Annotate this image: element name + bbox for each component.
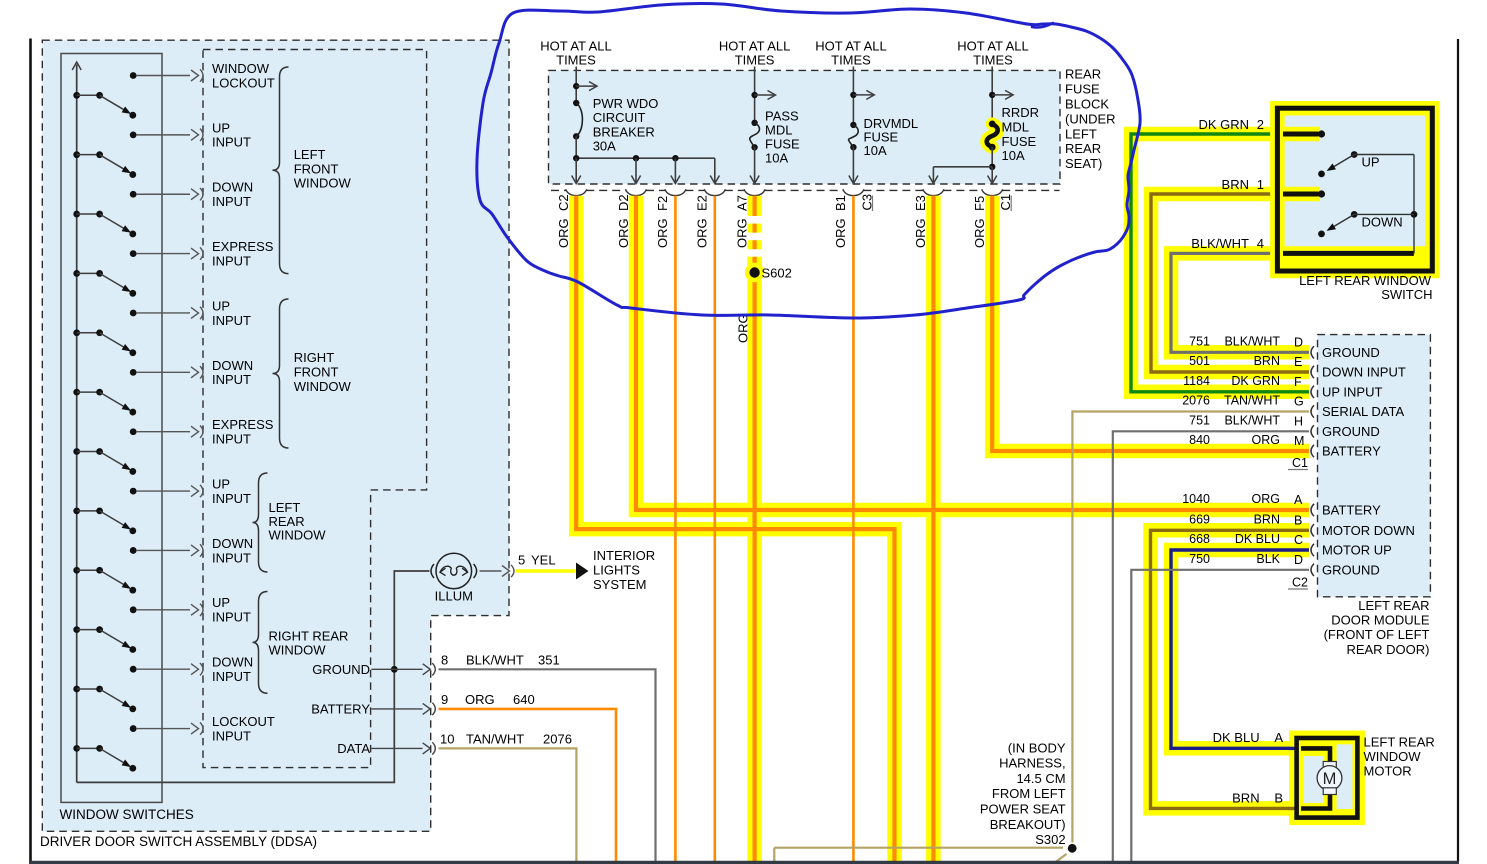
svg-text:FUSE: FUSE — [1002, 134, 1037, 149]
svg-text:EXPRESS: EXPRESS — [212, 417, 274, 432]
svg-text:BLK: BLK — [1256, 552, 1280, 566]
wire ORG F5 / 840 ORG M — [992, 196, 1309, 451]
motor internal wiring — [1301, 748, 1330, 762]
svg-text:351: 351 — [538, 653, 560, 668]
svg-text:(UNDER: (UNDER — [1065, 111, 1116, 126]
switch pin 2 stub — [1281, 127, 1319, 142]
svg-text:E: E — [1294, 355, 1302, 369]
svg-text:C: C — [1294, 533, 1303, 547]
svg-text:DK GRN: DK GRN — [1198, 117, 1249, 132]
switch UP contact — [1351, 151, 1358, 158]
svg-text:D: D — [1294, 553, 1303, 567]
switch bus wire — [76, 65, 78, 783]
svg-text:HOT AT ALL: HOT AT ALL — [815, 39, 887, 54]
module pin GROUND y=569.8 — [1311, 564, 1314, 576]
svg-text:INPUT: INPUT — [212, 253, 251, 268]
wire DK GRN 1184 — [1131, 134, 1309, 392]
module pin UP INPUT y=391.8 — [1311, 386, 1314, 398]
switch S10 — [73, 604, 203, 653]
svg-text:INPUT: INPUT — [212, 135, 251, 150]
svg-text:8: 8 — [441, 653, 448, 668]
svg-text:B1: B1 — [833, 195, 848, 211]
module pin DOWN INPUT y=372 — [1311, 366, 1314, 378]
svg-text:669: 669 — [1189, 513, 1210, 527]
svg-text:MOTOR: MOTOR — [1364, 764, 1412, 779]
svg-text:INPUT: INPUT — [212, 194, 251, 209]
svg-text:668: 668 — [1189, 532, 1210, 546]
breaker output bus — [576, 157, 715, 159]
svg-text:ORG: ORG — [556, 218, 571, 248]
yellow highlight motor wires BRN / DK BLU — [1151, 530, 1310, 808]
svg-text:HOT AT ALL: HOT AT ALL — [719, 39, 791, 54]
svg-text:1184: 1184 — [1183, 374, 1210, 388]
wire 9 ORG 640 — [439, 709, 617, 861]
svg-text:SERIAL DATA: SERIAL DATA — [1322, 404, 1404, 419]
svg-text:GROUND: GROUND — [312, 662, 370, 677]
svg-text:INPUT: INPUT — [212, 669, 251, 684]
svg-text:WINDOW SWITCHES: WINDOW SWITCHES — [60, 807, 194, 822]
bus arrow up — [72, 62, 81, 70]
pin bump x=675.4 — [665, 189, 686, 195]
svg-text:A7: A7 — [734, 195, 749, 211]
page border bottom — [29, 861, 1459, 864]
svg-text:HARNESS,: HARNESS, — [999, 756, 1065, 771]
svg-text:(IN BODY: (IN BODY — [1008, 740, 1066, 755]
svg-text:MDL: MDL — [1002, 120, 1029, 135]
svg-text:ORG: ORG — [655, 218, 670, 248]
svg-text:F5: F5 — [972, 196, 987, 211]
wire BLK/WHT 751 switch — [1171, 253, 1309, 352]
wire BRN 501 — [1151, 194, 1309, 372]
svg-text:FRONT: FRONT — [294, 365, 339, 380]
svg-text:DOWN: DOWN — [212, 358, 253, 373]
wire BRN 669 motor down — [1151, 530, 1310, 808]
svg-text:DOWN: DOWN — [212, 655, 253, 670]
wire ORG C2 — [576, 196, 894, 862]
svg-text:DOWN: DOWN — [212, 536, 253, 551]
svg-text:BATTERY: BATTERY — [1322, 444, 1381, 459]
svg-text:750: 750 — [1189, 552, 1210, 566]
svg-text:TIMES: TIMES — [831, 53, 871, 68]
switch S4 — [73, 247, 203, 296]
left rear window motor box — [1297, 738, 1358, 818]
svg-text:14.5 CM: 14.5 CM — [1016, 771, 1065, 786]
pin bump x=714.8 — [704, 189, 725, 195]
pin bump x=754.6 — [744, 189, 765, 195]
svg-text:2076: 2076 — [1182, 394, 1210, 408]
svg-text:A: A — [1294, 493, 1303, 507]
switch S12 — [73, 722, 203, 771]
svg-text:WINDOW: WINDOW — [269, 642, 327, 657]
svg-text:FRONT: FRONT — [294, 161, 339, 176]
wire DK BLU 668 motor up — [1171, 550, 1309, 748]
svg-text:640: 640 — [513, 692, 535, 707]
svg-text:S602: S602 — [762, 266, 792, 281]
svg-text:UP: UP — [212, 120, 230, 135]
svg-text:M: M — [1323, 770, 1337, 788]
yellow highlight F5 wire to pin M — [992, 196, 1309, 451]
svg-text:B: B — [1294, 513, 1302, 527]
svg-text:MOTOR DOWN: MOTOR DOWN — [1322, 523, 1415, 538]
circuit breaker PWR WDO 30A — [573, 67, 597, 159]
svg-text:GROUND: GROUND — [1322, 562, 1380, 577]
svg-text:LOCKOUT: LOCKOUT — [212, 714, 275, 729]
svg-text:M: M — [1294, 434, 1304, 448]
svg-text:PWR WDO: PWR WDO — [593, 96, 659, 111]
blue highlighter loop — [477, 4, 1140, 318]
illumination lamp ILLUM — [431, 553, 477, 589]
svg-text:BLK/WHT: BLK/WHT — [1191, 236, 1249, 251]
module pin SERIAL DATA y=411.5 — [1311, 405, 1314, 417]
wire TAN/WHT 2076 serial data — [1072, 412, 1309, 843]
wire illum to edge — [480, 570, 502, 572]
svg-text:BLOCK: BLOCK — [1065, 97, 1109, 112]
wire ORG B1 — [852, 196, 855, 862]
fuse PASS MDL 10A — [750, 67, 776, 184]
switch pin 1 stub — [1281, 187, 1319, 202]
switch S2 — [73, 129, 203, 178]
svg-text:INPUT: INPUT — [212, 728, 251, 743]
svg-text:EXPRESS: EXPRESS — [212, 239, 274, 254]
svg-text:S302: S302 — [1035, 832, 1065, 847]
inner input-labels dashed box — [203, 50, 427, 768]
svg-text:ORG: ORG — [734, 218, 749, 248]
svg-text:SWITCH: SWITCH — [1381, 287, 1432, 302]
junction dot ground/illum — [391, 666, 398, 673]
svg-text:1040: 1040 — [1182, 492, 1210, 506]
svg-text:DK GRN: DK GRN — [1231, 374, 1280, 388]
svg-text:YEL: YEL — [531, 553, 556, 568]
svg-text:DOWN: DOWN — [212, 180, 253, 195]
svg-text:5: 5 — [518, 553, 525, 568]
svg-text:751: 751 — [1189, 414, 1210, 428]
svg-text:UP: UP — [212, 298, 230, 313]
svg-text:LIGHTS: LIGHTS — [593, 563, 640, 578]
svg-text:F: F — [1294, 375, 1302, 389]
svg-text:BRN: BRN — [1222, 177, 1249, 192]
wire BLK/WHT 751 ground H — [1113, 431, 1309, 861]
svg-text:ORG: ORG — [1252, 433, 1280, 447]
svg-text:10A: 10A — [765, 151, 788, 166]
fuse box down arrow x=576.2 — [575, 158, 577, 182]
svg-text:DOOR MODULE: DOOR MODULE — [1331, 613, 1430, 628]
svg-text:BREAKOUT): BREAKOUT) — [990, 817, 1066, 832]
switch S8 — [73, 485, 203, 534]
svg-text:C1: C1 — [1292, 456, 1308, 470]
page border left — [29, 39, 32, 862]
wire 5 YEL to interior lights — [516, 569, 575, 573]
svg-text:ORG: ORG — [1252, 492, 1280, 506]
svg-text:GROUND: GROUND — [1322, 424, 1380, 439]
pin bump x=933.4 — [923, 189, 944, 195]
svg-text:HOT AT ALL: HOT AT ALL — [957, 39, 1029, 54]
svg-text:2076: 2076 — [543, 732, 572, 747]
splice S302 — [774, 847, 1063, 849]
switch S5 — [73, 307, 203, 356]
svg-text:ORG: ORG — [465, 692, 495, 707]
brace left rear window — [253, 473, 268, 572]
svg-text:BRN: BRN — [1254, 513, 1280, 527]
svg-text:INPUT: INPUT — [212, 550, 251, 565]
svg-text:TIMES: TIMES — [556, 53, 596, 68]
svg-text:BLK/WHT: BLK/WHT — [466, 653, 524, 668]
switch S11 — [73, 663, 203, 712]
svg-text:SEAT): SEAT) — [1065, 156, 1102, 171]
svg-text:A: A — [1274, 730, 1283, 745]
switch DOWN contact — [1351, 211, 1358, 218]
svg-text:BRN: BRN — [1232, 790, 1259, 805]
wire ORG E3 — [931, 196, 935, 862]
svg-text:BATTERY: BATTERY — [1322, 503, 1381, 518]
svg-text:4: 4 — [1257, 236, 1264, 251]
pin bump x=576.2 — [566, 189, 587, 195]
svg-text:TIMES: TIMES — [735, 53, 775, 68]
svg-text:POWER SEAT: POWER SEAT — [980, 802, 1066, 817]
arrow to interior lights system — [576, 563, 589, 580]
svg-text:BATTERY: BATTERY — [311, 702, 370, 717]
svg-text:LEFT REAR WINDOW: LEFT REAR WINDOW — [1299, 273, 1432, 288]
svg-text:10: 10 — [440, 732, 454, 747]
module pin MOTOR UP y=550 — [1311, 544, 1314, 556]
svg-text:BREAKER: BREAKER — [593, 124, 655, 139]
fuse box down arrow x=714.8 — [714, 158, 716, 182]
svg-text:INPUT: INPUT — [212, 372, 251, 387]
svg-text:WINDOW: WINDOW — [294, 379, 352, 394]
svg-text:ORG: ORG — [833, 218, 848, 248]
svg-text:MDL: MDL — [765, 123, 792, 138]
driver door switch assembly (DDSA) outline box — [42, 40, 509, 831]
switch S1 — [73, 69, 203, 118]
svg-text:751: 751 — [1189, 335, 1210, 349]
svg-text:2: 2 — [1257, 117, 1264, 132]
yellow highlight D2 wire to pin A — [636, 196, 1309, 510]
splice S602 — [745, 263, 765, 283]
brace right rear window — [253, 592, 268, 694]
switch right bus — [1413, 155, 1415, 254]
svg-text:ORG: ORG — [616, 218, 631, 248]
svg-text:BRN: BRN — [1254, 354, 1280, 368]
svg-text:ORG: ORG — [695, 218, 710, 248]
svg-text:LOCKOUT: LOCKOUT — [212, 75, 275, 90]
svg-text:SYSTEM: SYSTEM — [593, 577, 646, 592]
svg-text:FUSE: FUSE — [765, 137, 800, 152]
svg-text:REAR: REAR — [1065, 141, 1101, 156]
svg-text:UP: UP — [212, 595, 230, 610]
switch S3 — [73, 188, 203, 237]
ground return wire of switch bus — [77, 571, 430, 782]
fuse DRVMDL 10A — [849, 67, 875, 184]
wire 8 BLK/WHT 351 — [439, 669, 656, 861]
svg-text:DK BLU: DK BLU — [1213, 730, 1260, 745]
svg-text:E2: E2 — [695, 195, 710, 211]
svg-text:C2: C2 — [1292, 576, 1308, 590]
svg-text:LEFT REAR: LEFT REAR — [1358, 598, 1429, 613]
svg-text:DK BLU: DK BLU — [1235, 532, 1280, 546]
svg-text:UP: UP — [212, 476, 230, 491]
motor M circle — [1317, 766, 1342, 791]
pin bump x=992.2 — [982, 189, 1003, 195]
svg-text:FUSE: FUSE — [1065, 82, 1100, 97]
svg-text:LEFT: LEFT — [1065, 126, 1097, 141]
fuse box down arrow x=636 — [635, 158, 637, 182]
svg-text:BLK/WHT: BLK/WHT — [1224, 414, 1280, 428]
svg-text:501: 501 — [1189, 354, 1210, 368]
svg-text:G: G — [1294, 395, 1304, 409]
yellow highlight switch wires DK GRN / BRN / BLK-WHT — [1131, 134, 1309, 392]
pin bump x=853.4 — [843, 189, 864, 195]
svg-text:10A: 10A — [1002, 148, 1025, 163]
svg-text:DATA: DATA — [337, 741, 370, 756]
wire BLK 750 ground — [1131, 570, 1309, 862]
wire 10 TAN/WHT 2076 — [439, 748, 577, 861]
svg-text:BLK/WHT: BLK/WHT — [1224, 335, 1280, 349]
window switches box — [61, 54, 162, 803]
svg-text:DOWN INPUT: DOWN INPUT — [1322, 365, 1406, 380]
module pin BATTERY y=510 — [1311, 504, 1314, 516]
svg-text:INPUT: INPUT — [212, 313, 251, 328]
svg-text:TIMES: TIMES — [973, 53, 1013, 68]
svg-text:UP: UP — [1362, 155, 1380, 170]
svg-text:TAN/WHT: TAN/WHT — [466, 732, 524, 747]
svg-text:INPUT: INPUT — [212, 610, 251, 625]
switch S7 — [73, 426, 203, 475]
yellow highlight E3 wire — [926, 196, 941, 862]
svg-text:LEFT REAR: LEFT REAR — [1364, 734, 1435, 749]
svg-text:FROM LEFT: FROM LEFT — [992, 786, 1066, 801]
page border right — [1457, 39, 1459, 862]
svg-text:INPUT: INPUT — [212, 491, 251, 506]
svg-text:ILLUM: ILLUM — [435, 589, 473, 604]
svg-text:RRDR: RRDR — [1002, 105, 1040, 120]
svg-text:INPUT: INPUT — [212, 432, 251, 447]
motor brush bottom — [1323, 788, 1336, 795]
rear fuse block box — [549, 70, 1061, 184]
svg-text:ORG: ORG — [913, 218, 928, 248]
svg-text:REAR: REAR — [269, 514, 305, 529]
svg-text:LEFT: LEFT — [294, 147, 326, 162]
svg-text:ORG: ORG — [972, 218, 987, 248]
svg-text:CIRCUIT: CIRCUIT — [593, 110, 646, 125]
pin bump x=636 — [626, 189, 647, 195]
left rear window switch box — [1277, 108, 1432, 271]
brace right front window — [273, 299, 289, 448]
svg-text:1: 1 — [1257, 177, 1264, 192]
svg-text:DOWN: DOWN — [1362, 214, 1403, 229]
svg-text:(FRONT OF LEFT: (FRONT OF LEFT — [1324, 627, 1430, 642]
switch pin 4 bar — [1280, 246, 1430, 268]
svg-text:PASS: PASS — [765, 109, 799, 124]
wire ORG A7 — [752, 196, 756, 207]
svg-text:INTERIOR: INTERIOR — [593, 548, 655, 563]
module pin BATTERY y=451 — [1311, 445, 1314, 457]
yellow highlight C2 wire — [576, 196, 894, 862]
svg-text:30A: 30A — [593, 139, 616, 154]
module pin GROUND y=431.3 — [1311, 425, 1314, 437]
left rear door module box — [1318, 335, 1431, 597]
svg-text:GROUND: GROUND — [1322, 345, 1380, 360]
svg-text:HOT AT ALL: HOT AT ALL — [540, 39, 612, 54]
svg-text:LEFT: LEFT — [269, 500, 301, 515]
svg-text:RIGHT: RIGHT — [294, 350, 335, 365]
wire ORG E2 — [713, 196, 716, 862]
svg-text:WINDOW: WINDOW — [1364, 749, 1422, 764]
fuse block connector strip — [551, 189, 566, 191]
svg-text:DRIVER DOOR SWITCH ASSEMBLY (D: DRIVER DOOR SWITCH ASSEMBLY (DDSA) — [40, 834, 317, 849]
yellow highlight A7 wire — [747, 196, 762, 207]
svg-text:10A: 10A — [864, 143, 887, 158]
svg-text:MOTOR UP: MOTOR UP — [1322, 543, 1392, 558]
svg-text:H: H — [1294, 414, 1303, 428]
fuse RRDR MDL 10A (highlighted) — [929, 67, 1013, 184]
svg-text:C2: C2 — [556, 194, 571, 211]
switch S6 — [73, 366, 203, 415]
svg-text:D2: D2 — [616, 194, 631, 211]
svg-text:TAN/WHT: TAN/WHT — [1224, 394, 1280, 408]
motor brush top — [1323, 762, 1336, 769]
svg-text:UP INPUT: UP INPUT — [1322, 384, 1382, 399]
switch S9 — [73, 544, 203, 593]
svg-text:E3: E3 — [913, 195, 928, 211]
module pin GROUND y=352.3 — [1311, 346, 1314, 358]
module pin MOTOR DOWN y=530.3 — [1311, 524, 1314, 536]
svg-text:WINDOW: WINDOW — [212, 61, 270, 76]
svg-text:WINDOW: WINDOW — [294, 176, 352, 191]
svg-text:9: 9 — [441, 692, 448, 707]
svg-text:B: B — [1274, 790, 1283, 805]
fuse box down arrow x=675.4 — [674, 158, 676, 182]
svg-text:D: D — [1294, 335, 1303, 349]
svg-text:REAR: REAR — [1065, 67, 1101, 82]
wire ORG D2 / 1040 ORG A — [636, 196, 1309, 510]
svg-text:RIGHT REAR: RIGHT REAR — [269, 628, 349, 643]
svg-text:F2: F2 — [655, 196, 670, 211]
svg-text:REAR DOOR): REAR DOOR) — [1346, 642, 1429, 657]
svg-text:WINDOW: WINDOW — [269, 528, 327, 543]
wire ORG F2 — [674, 196, 677, 862]
blue pen overlap stroke — [1032, 23, 1053, 28]
svg-text:840: 840 — [1189, 433, 1210, 447]
brace left front window — [273, 67, 289, 274]
